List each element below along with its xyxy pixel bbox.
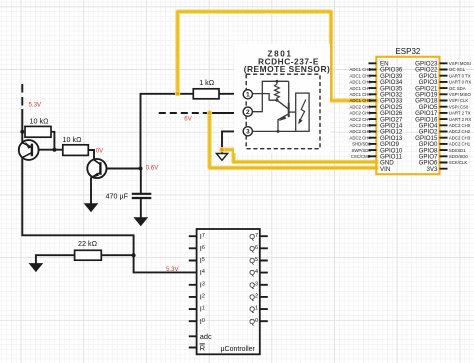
wire 6V solid to sensor pin 2 (206, 112, 243, 114)
svg-text:CSC/CMD: CSC/CMD (351, 154, 371, 159)
svg-text:SDI/SD1: SDI/SD1 (449, 148, 466, 153)
svg-text:ADC1 CH5: ADC1 CH5 (350, 98, 372, 103)
uController U3 (197, 229, 260, 354)
svg-text:(REMOTE SENSOR): (REMOTE SENSOR) (244, 64, 331, 74)
ground under Q2 (85, 204, 98, 212)
svg-text:SWP/SD3: SWP/SD3 (351, 148, 371, 153)
svg-text:6V: 6V (184, 116, 192, 123)
svg-text:UART 0 RX: UART 0 RX (449, 80, 471, 85)
resistor R1 10k (25, 126, 51, 137)
svg-text:ADC1 CH4: ADC1 CH4 (350, 92, 372, 97)
svg-text:ADC2 CH1: ADC2 CH1 (449, 142, 471, 147)
wire Q1 base to R2 (32, 149, 63, 151)
svg-text:ADC2 CH9: ADC2 CH9 (350, 111, 372, 116)
wire capacitor bottom to ground (140, 198, 142, 217)
svg-text:UART 0 TX: UART 0 TX (449, 73, 471, 78)
wire Q2 emitter to ground (90, 177, 92, 203)
svg-text:ADC1 CH7: ADC1 CH7 (350, 86, 372, 91)
node 0.6V junction (139, 167, 143, 171)
wire Q2 base to 0.6V node (100, 168, 140, 170)
svg-text:VSPI MOSI: VSPI MOSI (449, 61, 471, 66)
wire 6V dashed (159, 112, 206, 114)
wire yellow net VCC: 1k node to ESP32 GPIO33 (178, 12, 377, 101)
svg-text:1: 1 (246, 92, 250, 99)
wire yellow net GND: sensor ground to ESP32 GND (222, 150, 376, 162)
ESP32 outer labels (350, 61, 472, 165)
uController R overline (200, 343, 205, 345)
svg-text:ADC2 CH2: ADC2 CH2 (449, 129, 471, 134)
svg-text:SCK/CLK: SCK/CLK (449, 160, 468, 165)
ESP32 module U2 (376, 47, 439, 174)
pin 3 (243, 127, 252, 136)
svg-text:VSPI MISO: VSPI MISO (449, 92, 472, 97)
resistor R2 10k (63, 145, 89, 156)
uController pin names (200, 232, 258, 352)
wire 5.3V solid into Q1 emitter (21, 109, 23, 143)
wire R1 right lead down to base node (51, 132, 54, 150)
svg-text:ESP32: ESP32 (395, 47, 420, 56)
op-amp U1 Z801 remote sensor module (234, 44, 330, 153)
svg-text:ADC2 CH7: ADC2 CH7 (350, 117, 372, 122)
svg-text:ADC1 CH0: ADC1 CH0 (350, 67, 372, 72)
svg-text:ADC2 CH3: ADC2 CH3 (449, 135, 471, 140)
svg-text:VIN: VIN (380, 166, 390, 173)
svg-text:SDO/SD0: SDO/SD0 (449, 154, 468, 159)
ground at sensor pin3 (open) (216, 154, 227, 161)
svg-text:ADC2 CH8: ADC2 CH8 (350, 104, 372, 109)
svg-text:10 kΩ: 10 kΩ (30, 116, 50, 125)
wire 22k left lead to ground (36, 255, 75, 263)
node Q1 base junction (52, 148, 56, 152)
resistor R3 1k (193, 89, 219, 99)
svg-text:SHD/SD2: SHD/SD2 (352, 142, 371, 147)
svg-text:ADC2 CH4: ADC2 CH4 (350, 135, 372, 140)
svg-text:UART 2 TX: UART 2 TX (449, 111, 471, 116)
transistor Q1 (19, 140, 39, 160)
wire 5.3V dashed supply stub (21, 84, 23, 109)
wire sensor pin 3 to ground (222, 131, 243, 153)
svg-text:2: 2 (246, 109, 250, 116)
ESP32 pin names (380, 61, 438, 173)
svg-text:I2C SDA: I2C SDA (449, 86, 466, 91)
svg-text:I2C SCL: I2C SCL (449, 67, 466, 72)
wire R2 right lead to Q2 collector (88, 150, 94, 160)
ground at 22k resistor (29, 264, 42, 272)
svg-text:3V3: 3V3 (426, 166, 438, 173)
svg-text:ADC2 CH6: ADC2 CH6 (350, 123, 372, 128)
svg-text:1 kΩ: 1 kΩ (199, 78, 215, 87)
svg-text:ADC2 CH0: ADC2 CH0 (449, 123, 471, 128)
svg-text:ADC1 CH6: ADC1 CH6 (350, 80, 372, 85)
svg-text:ADC2 CH5: ADC2 CH5 (350, 129, 372, 134)
pin 1 (243, 90, 252, 99)
capacitor C1 470uF (132, 194, 152, 198)
wire 22k right lead (101, 254, 133, 256)
svg-text:22 kΩ: 22 kΩ (78, 239, 98, 248)
wire 0.6V node down to capacitor (140, 169, 142, 194)
wire 1k right lead to sensor pin 1 (219, 93, 243, 95)
svg-text:UART 2 RX: UART 2 RX (449, 117, 471, 122)
svg-text:5.3V: 5.3V (29, 101, 42, 108)
node yellow junction at 1k (175, 91, 180, 96)
ground under 470uF capacitor (134, 218, 147, 226)
svg-text:µController: µController (221, 346, 256, 353)
node yellow junction at sensor gnd (219, 147, 224, 152)
node VCC junction at R1 left (20, 130, 24, 134)
svg-text:R: R (200, 343, 205, 352)
svg-text:VSPI CS0: VSPI CS0 (449, 104, 469, 109)
node 22k junction (132, 253, 136, 257)
svg-text:5.3V: 5.3V (166, 266, 179, 273)
wire yellow net VIN: 6V node to ESP32 VIN (210, 113, 377, 168)
svg-text:adc: adc (200, 332, 212, 341)
pin 2 (243, 107, 252, 116)
node yellow junction at 6V (207, 110, 212, 115)
svg-text:10 kΩ: 10 kΩ (63, 135, 83, 144)
uController pin stubs (189, 236, 268, 347)
svg-text:ADC1 CH3: ADC1 CH3 (350, 73, 372, 78)
svg-text:0.6V: 0.6V (146, 165, 159, 172)
svg-text:VSPI CLK: VSPI CLK (449, 98, 468, 103)
wire Q1 collector long net to uController I4 (22, 157, 196, 272)
svg-text:0V: 0V (96, 148, 104, 155)
svg-text:470 µF: 470 µF (106, 192, 129, 201)
wire 0.6V riser to 1k resistor (141, 94, 194, 169)
ESP32 pin stubs (369, 63, 448, 168)
resistor R4 22k (75, 250, 102, 260)
svg-text:3: 3 (246, 129, 250, 136)
transistor Q2 (87, 159, 106, 178)
